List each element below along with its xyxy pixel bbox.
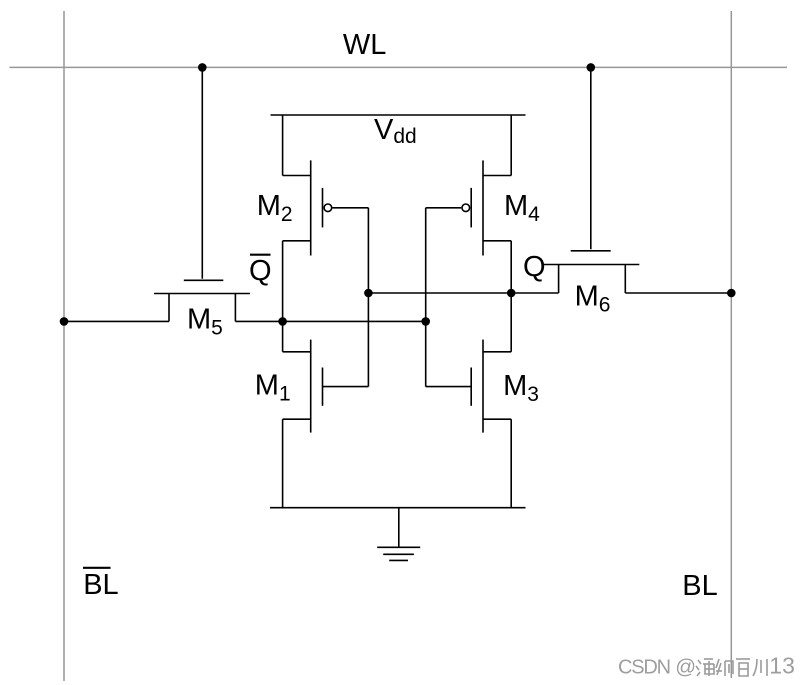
bit line BL wire (right) (730, 11, 732, 678)
wire Vdd to M4 source (510, 115, 512, 176)
wire M2/M1 gates vertical (367, 208, 369, 387)
hanzi chuan (753, 659, 767, 676)
junction dot node Q (507, 289, 516, 298)
wire BLbar to M5 source (64, 320, 169, 322)
transistor M3 (NMOS, right) (426, 340, 512, 433)
svg-text:BL: BL (682, 570, 717, 602)
svg-text:13: 13 (769, 652, 795, 678)
hanzi na (716, 659, 733, 676)
transistor M2 (PMOS, left) (283, 160, 369, 255)
ground rail (270, 507, 526, 509)
wire M4 drain to node Q to M3 drain (510, 241, 512, 352)
wire M2 drain to node Qbar to M1 drain (282, 241, 284, 352)
word line WL wire (10, 66, 788, 68)
junction dot upper wire / left gates (364, 289, 373, 298)
wire M4/M3 gates vertical (425, 208, 427, 387)
svg-text:Q: Q (249, 255, 272, 287)
wire M5 drain to node Qbar and lower cross wire to M3/M4 gates (235, 320, 425, 322)
hanzi bai (736, 659, 750, 676)
wire M1 source to ground rail (282, 419, 284, 508)
svg-text:@: @ (675, 655, 696, 678)
ground symbol (377, 547, 420, 560)
bit line BLbar wire (left) (63, 11, 65, 681)
transistor M6 (access, right) (544, 67, 640, 293)
hanzi hai (696, 659, 714, 676)
Vdd rail (271, 114, 526, 116)
wire M6 to BL (625, 292, 731, 294)
junction dot WL/M6 gate (587, 63, 596, 72)
transistor M5 (access, left) (154, 67, 250, 321)
svg-text:Q: Q (523, 251, 546, 283)
svg-text:BL: BL (83, 569, 118, 601)
wire ground tap (398, 508, 400, 548)
wire node Q to M6 and upper cross wire to M1/M2 gates (368, 292, 558, 294)
junction dot node Qbar (278, 317, 287, 326)
transistor M4 (PMOS, right) (426, 160, 512, 255)
junction dot lower wire / right gates (421, 317, 430, 326)
transistor M1 (NMOS, left) (283, 340, 369, 433)
wire Vdd to M2 source (282, 115, 284, 176)
svg-text:WL: WL (343, 29, 387, 61)
svg-text:CSDN: CSDN (618, 656, 670, 678)
watermark CSDN (618, 652, 795, 678)
wire M3 source to ground rail (510, 419, 512, 508)
junction dot WL/M5 gate (198, 63, 207, 72)
junction dot BL/M6 (727, 289, 736, 298)
junction dot BLbar/M5 (60, 317, 69, 326)
